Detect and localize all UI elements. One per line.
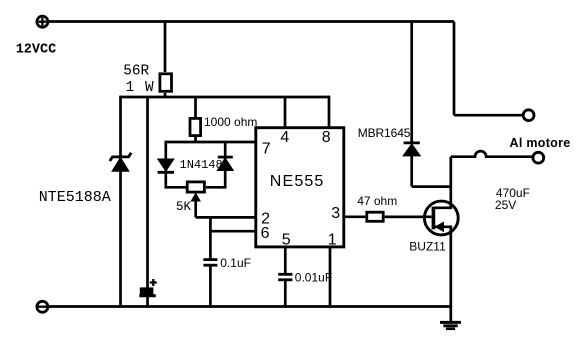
svg-text:7: 7 bbox=[262, 140, 271, 157]
wire zener branch bbox=[119, 96, 122, 307]
svg-text:1: 1 bbox=[328, 232, 337, 249]
svg-text:3: 3 bbox=[331, 205, 340, 222]
wire MBR1645 to drain bbox=[412, 185, 451, 188]
wire 1000ohm branch bottom bbox=[194, 137, 197, 142]
wire gate bbox=[385, 215, 432, 218]
svg-text:W: W bbox=[145, 80, 154, 96]
capacitor electrolytic small bbox=[139, 279, 157, 296]
wire pin2 bbox=[196, 216, 256, 219]
potentiometer 5K bbox=[187, 182, 204, 201]
svg-text:4: 4 bbox=[280, 129, 289, 146]
wire pin6 vertical bbox=[209, 216, 212, 258]
wire pin7 bbox=[165, 141, 256, 144]
wire 56R branch bottom bbox=[164, 93, 167, 97]
wire MBR1645 branch bottom bbox=[410, 155, 413, 187]
capacitor 0.01uF bbox=[278, 274, 292, 280]
svg-text:BUZ11: BUZ11 bbox=[409, 240, 446, 254]
svg-text:1: 1 bbox=[126, 80, 135, 96]
wire pin8 bbox=[328, 96, 331, 127]
wire right 1N4148 branch bbox=[224, 142, 227, 187]
wire diode loop bottom left bbox=[165, 186, 187, 189]
wire pot wiper stem bbox=[194, 199, 197, 217]
wire source vertical bbox=[449, 227, 452, 322]
wire 0.01uF to ground bus bbox=[284, 281, 287, 307]
wire bus below 56R bbox=[121, 96, 330, 99]
svg-text:25V: 25V bbox=[495, 198, 516, 212]
resistor 1000 ohm bbox=[190, 118, 201, 135]
ground bbox=[440, 322, 461, 328]
zener NTE5188A bbox=[110, 153, 131, 171]
svg-text:Al motore: Al motore bbox=[510, 136, 571, 150]
svg-text:56R: 56R bbox=[123, 64, 149, 80]
svg-text:0.01uF: 0.01uF bbox=[295, 271, 332, 285]
wire pin4 bbox=[284, 97, 287, 127]
resistor 56R bbox=[160, 74, 172, 92]
resistor 47 ohm bbox=[367, 212, 383, 221]
wire right vertical to motor terminal bbox=[453, 22, 456, 116]
svg-text:47 ohm: 47 ohm bbox=[357, 194, 397, 208]
wire ground bus bottom bbox=[42, 305, 451, 308]
svg-text:1000 ohm: 1000 ohm bbox=[204, 115, 257, 129]
svg-text:6: 6 bbox=[261, 225, 270, 242]
capacitor 0.1uF bbox=[203, 260, 217, 266]
svg-text:NE555: NE555 bbox=[270, 173, 325, 190]
svg-text:5: 5 bbox=[282, 232, 291, 249]
svg-text:5K: 5K bbox=[176, 200, 192, 214]
wire drain vertical bbox=[449, 157, 452, 208]
svg-text:1N4148: 1N4148 bbox=[180, 158, 223, 172]
wire 0.1uF to ground bus bbox=[209, 266, 212, 306]
svg-text:0.1uF: 0.1uF bbox=[220, 256, 251, 270]
wire pin1 bbox=[329, 248, 332, 307]
wire top bus bbox=[42, 20, 454, 23]
wire MBR1645 branch top bbox=[410, 22, 413, 144]
wire lower motor with hop bbox=[451, 151, 533, 157]
wire filter-cap branch bbox=[146, 97, 149, 307]
wire 56R branch top bbox=[164, 22, 167, 73]
svg-text:12VCC: 12VCC bbox=[16, 43, 57, 58]
svg-text:8: 8 bbox=[322, 129, 331, 146]
terminal ground left bbox=[37, 301, 48, 312]
transistor Q1 BUZ11 bbox=[385, 201, 458, 235]
diode 1N4148 left bbox=[158, 159, 174, 172]
IC U1 NE555 bbox=[256, 128, 344, 247]
diode MBR1645 bbox=[404, 143, 420, 156]
diode 1N4148 right bbox=[218, 157, 233, 170]
svg-text:MBR1645: MBR1645 bbox=[358, 126, 411, 140]
svg-text:NTE5188A: NTE5188A bbox=[39, 189, 111, 206]
wire pin3 bbox=[344, 215, 365, 218]
wire left 1N4148 branch bbox=[164, 142, 167, 187]
wire 1000ohm branch top bbox=[194, 97, 197, 117]
wire to upper motor terminal bbox=[454, 114, 523, 117]
wire diode loop bottom right bbox=[206, 186, 227, 189]
terminal motor upper bbox=[523, 110, 534, 121]
terminal motor lower bbox=[533, 152, 544, 163]
wire pin6 bbox=[210, 230, 255, 233]
wire pin5 bbox=[284, 248, 287, 274]
terminal 12VCC bbox=[37, 16, 48, 27]
